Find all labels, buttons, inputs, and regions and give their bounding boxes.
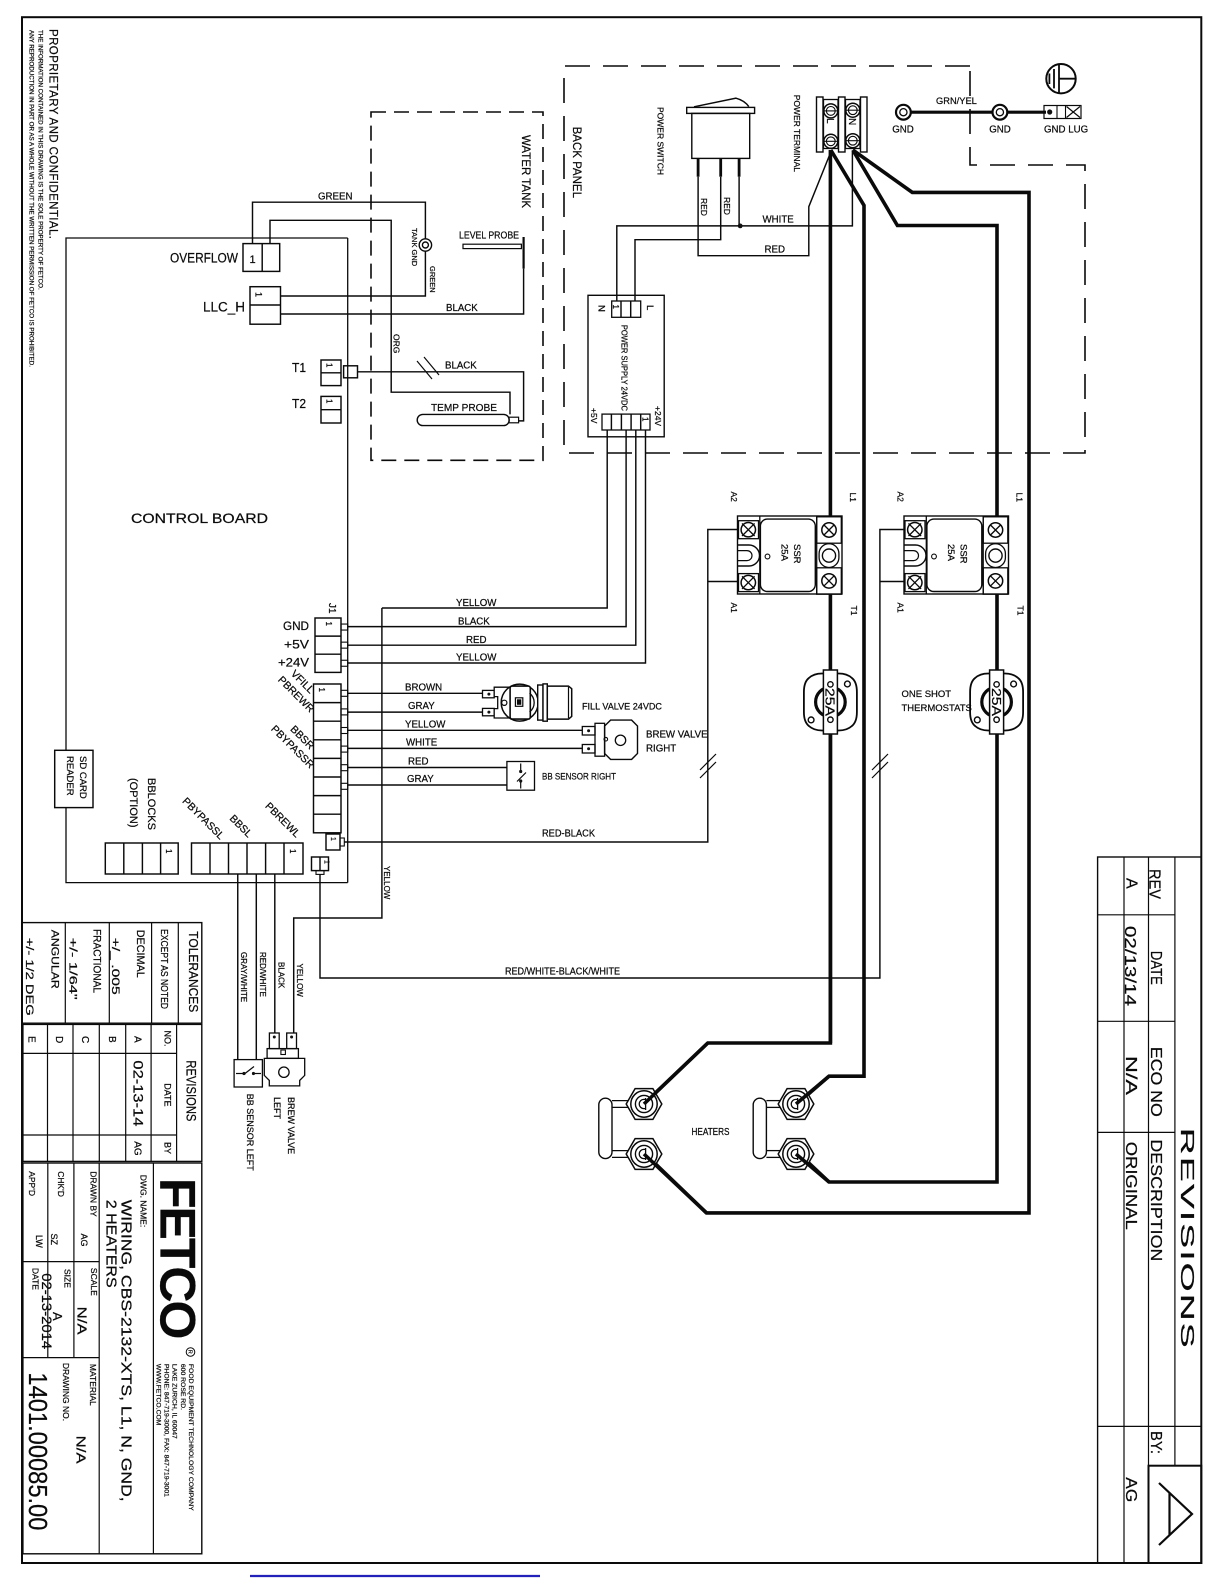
svg-text:GREEN: GREEN	[318, 192, 352, 203]
svg-text:L: L	[644, 305, 655, 310]
svg-text:CHK'D: CHK'D	[56, 1171, 66, 1197]
svg-text:ORG: ORG	[392, 334, 402, 353]
svg-text:25A: 25A	[945, 544, 956, 562]
svg-text:PROPRIETARY AND CONFIDENTIAL.: PROPRIETARY AND CONFIDENTIAL.	[47, 29, 59, 239]
svg-text:AG: AG	[1122, 1477, 1139, 1502]
svg-text:BLACK: BLACK	[458, 617, 490, 628]
svg-text:1: 1	[329, 837, 336, 841]
svg-text:DWG. NAME:: DWG. NAME:	[139, 1175, 149, 1227]
svg-text:+/_ .005: +/_ .005	[109, 938, 121, 995]
svg-text:RED/WHITE-BLACK/WHITE: RED/WHITE-BLACK/WHITE	[505, 967, 620, 978]
svg-text:HEATERS: HEATERS	[692, 1127, 730, 1138]
svg-text:BLACK: BLACK	[446, 303, 478, 314]
svg-text:LLC_H: LLC_H	[203, 300, 245, 315]
svg-text:FETCO: FETCO	[150, 1178, 206, 1338]
svg-text:ONE SHOT: ONE SHOT	[902, 689, 952, 700]
svg-text:BY:: BY:	[1147, 1431, 1164, 1454]
svg-text:D: D	[53, 1036, 64, 1043]
svg-text:BACK PANEL: BACK PANEL	[570, 127, 582, 199]
svg-text:LW: LW	[34, 1235, 44, 1248]
svg-text:E: E	[26, 1036, 37, 1043]
svg-text:DECIMAL: DECIMAL	[134, 930, 146, 978]
svg-text:L1: L1	[848, 493, 858, 503]
svg-text:ECO NO: ECO NO	[1147, 1047, 1164, 1117]
svg-text:N/A: N/A	[75, 1307, 90, 1335]
svg-text:A2: A2	[896, 492, 906, 503]
svg-text:+24V: +24V	[278, 655, 309, 669]
svg-text:OVERFLOW: OVERFLOW	[170, 251, 238, 266]
svg-text:POWER SUPPLY 24VDC: POWER SUPPLY 24VDC	[620, 325, 630, 411]
svg-text:GND: GND	[892, 125, 914, 136]
svg-text:1: 1	[641, 417, 650, 422]
svg-text:DATE: DATE	[163, 1083, 173, 1106]
svg-text:FRACTIONAL: FRACTIONAL	[91, 929, 103, 993]
svg-text:ANY REPRODUCTION IN PART OR AS: ANY REPRODUCTION IN PART OR AS A WHOLE W…	[28, 30, 35, 367]
svg-text:AG: AG	[132, 1141, 143, 1156]
svg-text:BB SENSOR RIGHT: BB SENSOR RIGHT	[542, 772, 616, 783]
svg-text:A: A	[1123, 878, 1140, 889]
svg-text:1: 1	[611, 305, 620, 310]
svg-text:+/- 1/64": +/- 1/64"	[67, 938, 79, 1000]
svg-text:+24V: +24V	[653, 406, 663, 426]
svg-text:B: B	[106, 1036, 117, 1043]
svg-text:GND LUG: GND LUG	[1044, 125, 1088, 136]
svg-text:1: 1	[324, 622, 333, 627]
svg-text:BLACK: BLACK	[445, 361, 477, 372]
svg-text:FILL VALVE 24VDC: FILL VALVE 24VDC	[582, 701, 662, 712]
svg-text:ANGULAR: ANGULAR	[49, 930, 61, 989]
svg-text:N: N	[846, 118, 857, 125]
svg-text:YELLOW: YELLOW	[405, 720, 446, 731]
svg-text:600 ROSE RD.: 600 ROSE RD.	[179, 1364, 186, 1410]
svg-text:REVISIONS: REVISIONS	[184, 1060, 200, 1121]
svg-text:BBLOCKS: BBLOCKS	[145, 778, 157, 830]
svg-text:SZ: SZ	[49, 1234, 59, 1246]
svg-text:TEMP PROBE: TEMP PROBE	[431, 402, 497, 414]
svg-text:AG: AG	[79, 1234, 89, 1247]
svg-text:BROWN: BROWN	[405, 683, 442, 694]
svg-text:GRAY: GRAY	[407, 774, 434, 785]
svg-text:R: R	[186, 1350, 192, 1354]
svg-text:SIZE: SIZE	[63, 1269, 73, 1288]
svg-text:GREEN: GREEN	[428, 266, 437, 293]
svg-text:RED-BLACK: RED-BLACK	[542, 829, 595, 840]
svg-text:A: A	[132, 1036, 143, 1043]
svg-text:1: 1	[323, 860, 330, 864]
svg-text:TANK GND: TANK GND	[410, 228, 419, 267]
svg-text:WHITE: WHITE	[763, 215, 795, 226]
svg-text:RED: RED	[699, 198, 709, 216]
svg-text:ORIGINAL: ORIGINAL	[1122, 1142, 1139, 1230]
svg-text:T1: T1	[292, 360, 306, 375]
svg-text:J1: J1	[326, 603, 337, 614]
svg-text:RED/WHITE: RED/WHITE	[258, 952, 267, 997]
svg-text:BY: BY	[163, 1142, 173, 1154]
svg-text:POWER TERMINAL: POWER TERMINAL	[792, 95, 802, 173]
svg-text:TOLERANCES: TOLERANCES	[186, 931, 201, 1012]
svg-text:GND: GND	[989, 125, 1011, 136]
svg-text:PHONE: 847-719-3000, FAX: 847-: PHONE: 847-719-3000, FAX: 847-719-3001	[163, 1364, 170, 1497]
svg-text:YELLOW: YELLOW	[456, 598, 497, 609]
svg-text:1: 1	[164, 849, 173, 854]
svg-text:WATER TANK: WATER TANK	[519, 135, 531, 208]
svg-text:L1: L1	[1015, 493, 1025, 503]
svg-text:1: 1	[325, 399, 334, 404]
svg-text:A1: A1	[729, 603, 739, 614]
svg-text:02-13-2014: 02-13-2014	[39, 1273, 55, 1349]
svg-text:N/A: N/A	[1122, 1056, 1139, 1095]
svg-text:C: C	[79, 1036, 90, 1043]
svg-text:BREW VALVE: BREW VALVE	[646, 730, 708, 741]
svg-text:CONTROL BOARD: CONTROL BOARD	[131, 510, 268, 526]
svg-text:GND: GND	[283, 619, 309, 633]
svg-text:A2: A2	[729, 492, 739, 503]
svg-text:25A: 25A	[823, 688, 838, 716]
svg-text:DESCRIPTION: DESCRIPTION	[1147, 1139, 1164, 1261]
svg-text:POWER SWITCH: POWER SWITCH	[656, 107, 666, 175]
svg-text:GRAY: GRAY	[408, 701, 435, 712]
svg-text:DRAWING NO.: DRAWING NO.	[61, 1363, 71, 1421]
svg-text:WWW.FETCO.COM: WWW.FETCO.COM	[154, 1364, 161, 1426]
svg-text:1: 1	[288, 849, 297, 854]
svg-text:NO.: NO.	[163, 1031, 173, 1047]
svg-text:1401.00085.00: 1401.00085.00	[23, 1372, 53, 1530]
svg-text:DATE: DATE	[31, 1268, 41, 1290]
svg-text:RED: RED	[408, 757, 428, 768]
svg-text:BLACK: BLACK	[277, 962, 286, 989]
svg-text:LEVEL PROBE: LEVEL PROBE	[459, 231, 519, 242]
svg-text:+5V: +5V	[589, 408, 599, 424]
svg-text:READER: READER	[64, 756, 75, 796]
svg-text:RED: RED	[722, 197, 732, 215]
svg-text:25A: 25A	[989, 688, 1004, 716]
svg-text:DATE: DATE	[1147, 951, 1164, 985]
svg-text:+/- 1/2 DEG: +/- 1/2 DEG	[23, 938, 35, 1016]
svg-text:02/13/14: 02/13/14	[1121, 926, 1138, 1006]
svg-text:2 HEATERS: 2 HEATERS	[103, 1200, 120, 1288]
svg-text:25A: 25A	[779, 544, 790, 562]
svg-text:DRAWN BY: DRAWN BY	[89, 1171, 99, 1217]
svg-text:REV: REV	[1146, 869, 1163, 899]
svg-text:T1: T1	[1016, 606, 1026, 616]
svg-text:APP'D: APP'D	[27, 1171, 37, 1196]
svg-text:BB SENSOR LEFT: BB SENSOR LEFT	[245, 1094, 255, 1172]
svg-text:YELLOW: YELLOW	[456, 653, 497, 664]
svg-text:RED: RED	[466, 635, 486, 646]
svg-text:N/A: N/A	[74, 1436, 89, 1464]
svg-text:REVISIONS: REVISIONS	[1177, 1128, 1197, 1350]
svg-text:LAKE ZURICH, IL 60047: LAKE ZURICH, IL 60047	[171, 1364, 178, 1439]
svg-text:THE INFORMATION CONTAINED IN T: THE INFORMATION CONTAINED IN THIS DRAWIN…	[37, 30, 44, 290]
svg-text:WHITE: WHITE	[406, 738, 438, 749]
svg-text:RED: RED	[765, 244, 785, 255]
svg-text:L: L	[824, 118, 835, 124]
svg-text:LEFT: LEFT	[272, 1097, 282, 1120]
svg-text:+5V: +5V	[284, 637, 309, 651]
svg-text:N: N	[596, 305, 607, 312]
svg-text:(OPTION): (OPTION)	[127, 778, 139, 828]
svg-text:1: 1	[325, 363, 334, 368]
svg-text:1: 1	[250, 254, 256, 266]
svg-text:RIGHT: RIGHT	[646, 744, 676, 755]
svg-text:T2: T2	[292, 396, 306, 411]
svg-text:1: 1	[254, 292, 264, 297]
svg-text:SSR: SSR	[791, 544, 802, 564]
svg-text:THERMOSTATS: THERMOSTATS	[902, 703, 972, 714]
svg-text:BREW VALVE: BREW VALVE	[286, 1097, 296, 1154]
svg-text:EXCEPT AS NOTED: EXCEPT AS NOTED	[158, 929, 169, 1009]
svg-text:SCALE: SCALE	[89, 1268, 99, 1296]
svg-text:GRN/YEL: GRN/YEL	[936, 96, 977, 106]
svg-text:YELLOW: YELLOW	[382, 866, 391, 900]
svg-text:SD CARD: SD CARD	[77, 756, 88, 799]
svg-text:MATERIAL: MATERIAL	[88, 1364, 98, 1406]
svg-text:GRAY/WHITE: GRAY/WHITE	[239, 952, 248, 1002]
svg-text:02-13-14: 02-13-14	[131, 1060, 147, 1126]
svg-text:1: 1	[317, 688, 326, 693]
svg-text:YELLOW: YELLOW	[295, 964, 304, 998]
svg-text:T1: T1	[849, 606, 859, 616]
svg-text:A1: A1	[896, 603, 906, 614]
svg-text:SSR: SSR	[958, 544, 969, 564]
svg-text:FOOD EQUIPMENT TECHNOLOGY COMP: FOOD EQUIPMENT TECHNOLOGY COMPANY	[187, 1364, 194, 1511]
